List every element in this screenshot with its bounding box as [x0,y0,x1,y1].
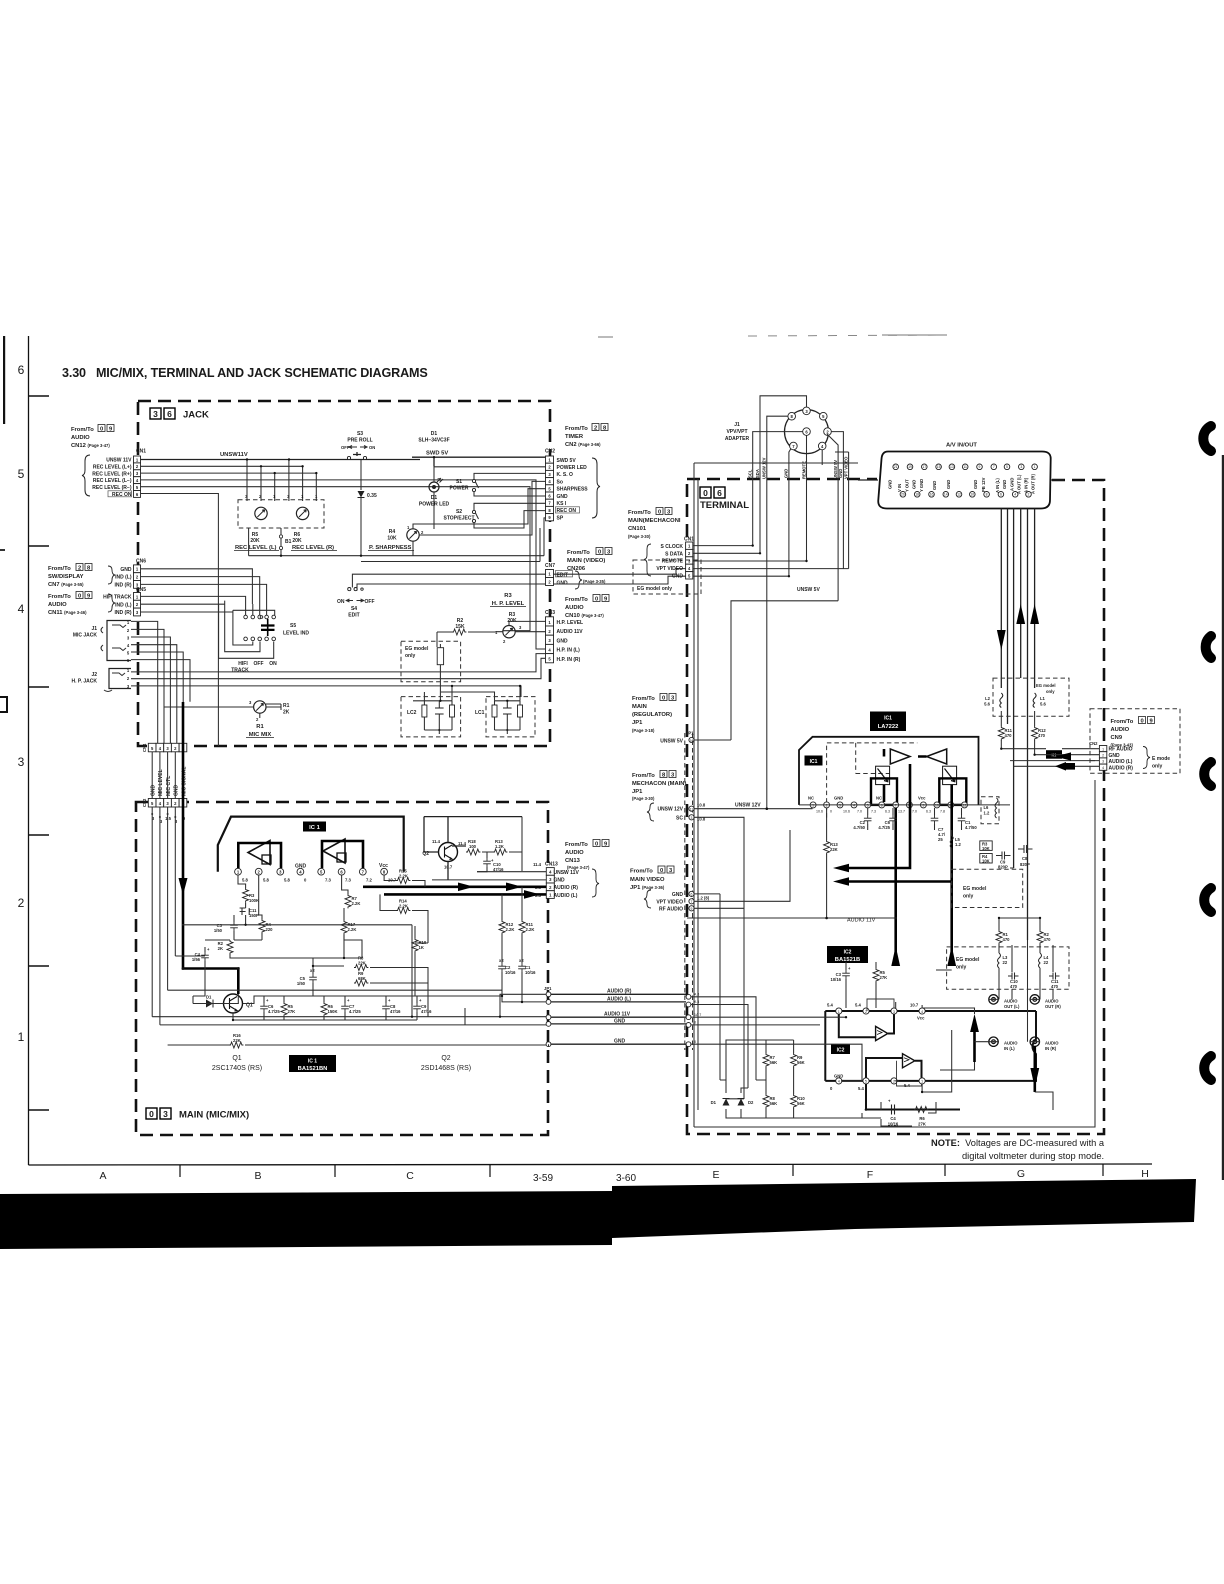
svg-text:IC1: IC1 [810,759,818,765]
svg-text:Q1: Q1 [232,1055,241,1062]
EG model box CN101 [633,560,701,594]
jack AUDIO IN L [989,1037,1018,1051]
wires CN2 down [152,807,175,1025]
from/to AUDIO CN10 label [565,595,609,620]
wire pot feeds [247,460,316,502]
svg-text:1/50: 1/50 [297,981,306,986]
wire SWD5V [412,457,546,467]
svg-text:10.6: 10.6 [816,810,823,814]
svg-text:22: 22 [1044,960,1049,965]
svg-text:RF AUDIO: RF AUDIO [659,907,683,913]
svg-text:(REGULATOR): (REGULATOR) [632,712,672,718]
thick down arrow audio in R [1034,1046,1037,1092]
capacitor C10 470 [1008,972,1019,989]
svg-text:56K: 56K [797,1060,805,1065]
jack block label boxes 3 6 [150,408,161,419]
svg-text:Y OUT: Y OUT [905,479,910,492]
resistor R7 2.2K [342,875,361,908]
note text [931,1138,1105,1161]
svg-text:only: only [1152,764,1162,770]
svg-text:GND: GND [672,892,684,898]
potentiometer R1 MIC MIX [164,700,290,738]
svg-text:JACK: JACK [183,410,209,421]
svg-text:7.3: 7.3 [345,878,351,883]
top scan dash c [882,334,947,336]
svg-text:4.7/25: 4.7/25 [878,825,890,830]
svg-text:NC: NC [808,796,814,801]
svg-text:LC1: LC1 [475,710,485,716]
svg-text:10.6: 10.6 [843,810,850,814]
svg-text:V IN: V IN [897,484,902,492]
capacitor C5 1/50 [297,966,317,996]
resistor R13 1.2K [482,817,522,871]
svg-text:L1: L1 [1040,696,1046,701]
margin tick r4 [29,686,50,688]
svg-text:6: 6 [717,488,722,498]
svg-text:JP1: JP1 [632,789,643,795]
connector CN13 [533,862,599,899]
svg-text:H.P. IN (R): H.P. IN (R) [557,657,581,663]
svg-text:4.7/25: 4.7/25 [268,1009,280,1014]
svg-text:7.3: 7.3 [871,810,876,814]
svg-text:22K: 22K [233,1038,241,1043]
svg-text:LEVEL IND: LEVEL IND [283,631,309,637]
connector CN6 [115,559,147,589]
resistor R3 100K [238,875,259,903]
svg-text:UNSW 12V: UNSW 12V [657,807,683,813]
svg-text:IC 1: IC 1 [308,1059,317,1065]
svg-text:2.2K: 2.2K [506,927,515,932]
svg-text:ADAPTER: ADAPTER [725,436,750,442]
vertical net labels MIC [151,767,188,796]
svg-text:10/16: 10/16 [505,970,516,975]
svg-text:SDA: SDA [755,469,760,478]
from/to CN9 label [1111,717,1155,748]
svg-text:EG model: EG model [963,886,987,892]
op-amp T2 [927,749,947,764]
connector J1 VPV/VPT adapter [753,396,844,471]
svg-text:5.8: 5.8 [242,878,248,883]
svg-text:AUDIO (L): AUDIO (L) [1109,759,1133,765]
svg-text:2K: 2K [283,710,290,716]
resistor R16 22K [229,1033,243,1048]
margin tick r6 [29,395,50,397]
inductor L4 22 [1039,944,1050,999]
svg-text:18: 18 [915,493,919,497]
svg-text:2.2K: 2.2K [352,901,361,906]
svg-text:RF AUDIO: RF AUDIO [1109,747,1133,753]
svg-text:4: 4 [838,1080,840,1084]
B1 jumper [279,535,282,538]
svg-text:R6: R6 [919,1116,925,1121]
resistor R2 470 [1037,930,1051,944]
binder crescent 2 [1206,636,1211,658]
resistor R4 10K boxed [980,854,992,864]
svg-text:GND: GND [834,1074,843,1079]
thick feedback box A2 [322,841,363,868]
svg-text:D2: D2 [748,1100,754,1105]
svg-text:ON: ON [269,661,277,667]
svg-text:100K: 100K [249,898,259,903]
svg-text:CN6: CN6 [136,559,146,565]
svg-text:CN7: CN7 [545,563,555,569]
top scan dash b [748,335,947,336]
transistor Q1 [224,994,253,1013]
svg-text:POWER: POWER [450,486,469,492]
resistor R8 22K [354,956,368,971]
svg-text:H.P. IN (L): H.P. IN (L) [557,648,581,654]
inductor L5 1.2 [950,830,961,860]
arrow down mic signal [179,878,188,895]
svg-text:S2: S2 [456,509,462,515]
connector CN2 [545,449,600,522]
connector CN7 [545,563,686,587]
main block dashed border [136,802,548,1135]
svg-text:6.3: 6.3 [885,810,890,814]
svg-text:x2: x2 [519,958,524,963]
capacitor C11 470 [1049,973,1060,990]
svg-text:AUDIO: AUDIO [48,602,67,608]
binder crescent 5 [1204,1056,1211,1080]
LED D1 POWER [419,467,546,529]
svg-text:F: F [867,1169,873,1181]
svg-text:CN3: CN3 [545,610,555,616]
svg-text:AUDIO: AUDIO [1111,727,1130,733]
resistor R15 2.2K [384,869,425,887]
svg-text:6: 6 [167,409,172,419]
inductor L3 22 [998,944,1009,999]
svg-text:(Page 3-30): (Page 3-30) [628,534,651,539]
svg-text:4.7/50: 4.7/50 [965,825,977,830]
label IC1 type block [289,1055,336,1072]
black bar right [612,1179,1196,1238]
svg-text:470: 470 [1010,984,1018,989]
wire CN1 pin5 [141,487,531,631]
svg-text:MAIN (MIC/MIX): MAIN (MIC/MIX) [179,1110,249,1121]
svg-text:10K: 10K [387,536,397,542]
svg-text:3.30 MIC/MIX, TERMINAL AND J: 3.30 MIC/MIX, TERMINAL AND JACK SCHEMATI… [62,366,428,380]
svg-text:16: 16 [930,493,934,497]
terminal block label boxes 0 6 [700,487,711,498]
svg-text:0: 0 [830,810,832,814]
svg-text:7: 7 [993,465,995,469]
svg-text:13.7: 13.7 [898,810,905,814]
resistor R13 22K term [824,808,839,918]
svg-text:A OUT (L): A OUT (L) [1017,474,1022,494]
potentiometer R6 [296,507,308,519]
arrow audio R a [458,883,474,892]
terminal audio wires [691,868,1053,1126]
adapter J1 label [725,422,750,442]
svg-text:ON: ON [337,599,345,605]
jack AUDIO OUT L [989,995,1020,1009]
svg-text:GND: GND [614,1039,626,1045]
potentiometer R3 20K [495,612,546,644]
svg-text:1: 1 [838,1010,840,1014]
svg-text:11.4: 11.4 [432,839,441,844]
wires CN4 to CN2 [152,752,183,799]
svg-text:UNSW 11V: UNSW 11V [106,458,132,464]
svg-text:only: only [1046,689,1055,694]
capacitor C1 4.7/50 [958,808,978,830]
wires J1 to bundle [131,621,190,746]
margin tick r2 [29,965,50,967]
svg-text:E mode: E mode [1152,756,1170,762]
svg-text:From/To: From/To [565,426,588,432]
resistor R6 27K [914,1107,928,1127]
svg-text:3: 3 [153,409,158,419]
svg-text:4: 4 [18,602,25,616]
jack J1 MIC JACK [73,620,131,663]
JP1 terminal dashed column [685,733,693,1050]
svg-text:IN (L): IN (L) [1004,1046,1015,1051]
svg-text:470: 470 [1005,733,1013,738]
resistor R18 100 [466,839,480,855]
svg-text:6: 6 [691,893,693,897]
left margin rule [28,336,30,1165]
svg-text:100: 100 [469,844,477,849]
svg-text:NC: NC [876,796,882,801]
svg-text:1/56: 1/56 [192,957,201,962]
resistor R1 470 [996,930,1010,944]
svg-text:1K: 1K [419,945,424,950]
inductor L2 5.6 [984,693,1003,708]
switch S4 EDIT [337,574,546,618]
svg-text:0: 0 [598,550,601,556]
svg-text:UNSW 11V: UNSW 11V [554,870,580,876]
svg-text:5.6: 5.6 [984,702,990,707]
svg-text:1.2 (8): 1.2 (8) [697,896,710,901]
CN101 pin wires [693,546,849,577]
svg-text:EG model: EG model [405,646,429,652]
from/to main video JP1 label [630,866,674,891]
bottom tick A/B [179,1165,181,1177]
svg-text:L6: L6 [984,805,990,810]
resistor R11 470 [998,711,1012,749]
svg-text:CN5: CN5 [136,587,146,593]
svg-text:A: A [99,1170,106,1182]
svg-text:0: 0 [1141,719,1144,725]
from/to mechacon JP1 label [632,771,686,802]
filter block LC1 [475,697,535,737]
svg-text:IND (L): IND (L) [115,575,132,581]
svg-text:OFF: OFF [341,445,350,450]
svg-text:C4: C4 [890,1116,896,1121]
svg-text:27K: 27K [288,1009,296,1014]
svg-text:K. S. O: K. S. O [557,472,574,478]
svg-text:5.4: 5.4 [858,1086,864,1091]
R5 value label [250,532,260,544]
svg-text:7.8: 7.8 [940,810,945,814]
svg-text:LC2: LC2 [407,710,417,716]
connector CN2 main [142,798,187,824]
svg-text:IC 1: IC 1 [309,825,320,831]
thick audio R wire [363,885,546,888]
IC1 body outline [218,817,404,872]
R6 value label [292,532,302,544]
resistor R12 470 [1032,711,1047,755]
diode D1 main [193,995,224,1008]
svg-text:VPT VIDEO: VPT VIDEO [656,566,683,572]
JP1 video wires [694,830,790,908]
svg-text:22: 22 [1003,960,1008,965]
terminal block dashed border [687,479,1104,1134]
svg-text:A IN (L): A IN (L) [995,478,1000,493]
svg-text:4.7/25: 4.7/25 [349,1009,361,1014]
svg-text:56K: 56K [797,1101,805,1106]
margin tick r5 [29,545,50,547]
svg-text:1.2: 1.2 [984,811,990,816]
arrow up col2 [947,946,956,966]
thick arrow up audio in [973,1032,976,1062]
svg-text:3: 3 [1020,465,1022,469]
JP1 terminal pads [686,993,701,1047]
svg-text:OFF: OFF [254,661,264,667]
svg-text:G: G [1017,1168,1025,1180]
svg-text:AUDIO (R): AUDIO (R) [607,989,632,995]
svg-text:C: C [406,1170,414,1182]
wires LC to CN3 [424,686,520,701]
svg-text:From/To: From/To [48,566,71,572]
left edge bracket mark [0,697,7,712]
svg-text:(Page 3-47): (Page 3-47) [567,865,590,870]
from/to SW DISPLAY CN7 label [48,564,115,589]
svg-text:B: B [254,1170,261,1182]
svg-text:SW/DISPLAY: SW/DISPLAY [48,574,84,580]
arrow left R [833,877,849,886]
connector CN1 [92,449,146,498]
svg-text:AUDIO: AUDIO [1045,1041,1059,1046]
resistor R10 1K [412,926,427,996]
binder crescent 1 [1203,426,1211,451]
svg-text:1.5: 1.5 [165,816,171,821]
IC2 pins top [827,1003,925,1021]
svg-text:MECHACON (MAIN): MECHACON (MAIN) [632,781,686,787]
resistor R17 2.2K [341,908,356,958]
margin tick r3 [29,834,50,836]
svg-text:220: 220 [266,927,274,932]
connector CN5 [103,587,146,616]
svg-text:0: 0 [149,1109,154,1119]
svg-text:56K: 56K [770,1060,778,1065]
svg-text:470: 470 [1003,937,1011,942]
svg-text:From/To: From/To [1111,719,1134,725]
svg-text:From/To: From/To [71,427,94,433]
svg-text:S CLOCK: S CLOCK [661,544,684,550]
arrow box CN9 [1055,762,1075,771]
IC2 label block [827,946,868,963]
resistor R3 10K boxed [980,841,992,851]
adapter drop wires [753,435,849,808]
svg-text:22K: 22K [358,961,366,966]
svg-text:AUDIO: AUDIO [1045,999,1059,1004]
wire audio11v row [687,917,896,919]
resistor R7 56K [763,1053,777,1067]
svg-text:From/To: From/To [628,510,651,516]
IC1 tab [805,756,823,766]
svg-text:6: 6 [18,363,25,377]
svg-text:B1: B1 [285,539,292,545]
svg-text:EG model: EG model [1036,683,1056,688]
svg-text:11.4: 11.4 [533,862,542,867]
svg-text:0: 0 [660,868,663,874]
bottom tick G/H [1102,1164,1104,1176]
svg-text:GND: GND [946,480,951,489]
bottom tick B/C [334,1165,336,1177]
svg-text:A OUT (R): A OUT (R) [1031,474,1036,494]
svg-text:15: 15 [937,465,941,469]
wire CN1 pin4 [141,480,546,649]
svg-text:0: 0 [100,427,103,433]
svg-text:x2: x2 [499,958,504,963]
svg-text:5: 5 [18,467,25,481]
capacitor C3 1/50 [214,915,238,940]
svg-text:0: 0 [658,510,661,516]
arrow left L [833,864,849,873]
JP1 main pads [245,986,552,1047]
svg-text:GND: GND [1002,480,1007,489]
svg-text:EG model only: EG model only [637,586,672,592]
capacitor C7 4.7/25 [931,808,946,842]
svg-text:CN2: CN2 [1089,741,1098,746]
label Q2 type [421,1055,471,1072]
thick columns down to IC2 [896,808,952,966]
capacitor C6 4.7/25 [260,996,280,1020]
svg-text:13: 13 [950,465,954,469]
jack J2 HP JACK [72,668,131,692]
bottom tick D/E [792,1164,794,1176]
svg-text:IND (R): IND (R) [115,610,132,616]
arrow left CN9 [1055,752,1071,760]
wires CN6 CN5 to S5 [141,569,267,615]
wire UNSW11V to CN13 [432,872,546,880]
svg-text:0: 0 [595,842,598,848]
svg-text:2K: 2K [218,946,223,951]
svg-text:REC LEVEL (L−): REC LEVEL (L−) [93,478,132,484]
svg-text:HIFI TRACK: HIFI TRACK [103,595,132,601]
svg-text:(Page 3-18): (Page 3-18) [632,728,655,733]
svg-text:R4: R4 [389,529,396,535]
svg-text:MAIN: MAIN [632,704,647,710]
resistor R9 68K [354,971,368,986]
svg-text:20K: 20K [250,538,260,544]
resistor R9 56K [791,1053,805,1067]
svg-text:3: 3 [163,1109,168,1119]
svg-text:H: H [1141,1168,1149,1180]
resistor R5 27K term [873,962,887,1008]
svg-text:17: 17 [922,465,926,469]
capacitor C8 47/16 [382,996,401,1020]
svg-text:IC2: IC2 [844,950,852,956]
svg-text:10K: 10K [982,859,990,864]
svg-text:D1: D1 [711,1100,717,1105]
relay K1 [1046,750,1062,759]
svg-text:REC LEVEL (L+): REC LEVEL (L+) [93,464,132,470]
resistor R8 56K [763,1094,777,1108]
svg-text:JP1: JP1 [544,986,552,991]
from/to CN101 label [628,508,681,540]
capacitor C9 47/16 [413,996,432,1020]
arrow down av1 [997,630,1006,650]
op-amp A2 [323,839,345,863]
svg-text:(Page 3-30): (Page 3-30) [632,796,655,801]
svg-text:3: 3 [691,816,693,820]
svg-text:So: So [557,479,563,485]
svg-text:CN13: CN13 [545,862,558,868]
svg-text:IC1: IC1 [884,716,892,722]
svg-text:1: 1 [921,1080,923,1084]
svg-text:STOP/EJECT: STOP/EJECT [443,516,474,522]
